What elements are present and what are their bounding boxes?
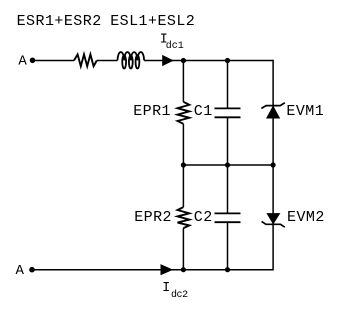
svg-text:C1: C1 bbox=[194, 103, 213, 120]
junction dot mid rail / C branch bbox=[225, 162, 230, 167]
wire: resistor to inductor bbox=[97, 60, 118, 62]
resistor ESR1+ESR2 bbox=[74, 54, 97, 66]
svg-text:A: A bbox=[16, 263, 25, 279]
capacitor C1 bbox=[215, 108, 241, 117]
node A bottom terminal dot bbox=[29, 267, 35, 273]
wire: bottom rail from node A to bottom-right corner bbox=[32, 269, 273, 271]
wire: inductor to top-right corner bbox=[144, 60, 273, 62]
svg-text:dc2: dc2 bbox=[171, 289, 188, 301]
junction dot top rail / EPR1 branch bbox=[181, 58, 186, 63]
wire: EPR1 lower lead to mid rail bbox=[182, 124, 184, 165]
wire: C1 lower lead to mid rail bbox=[227, 117, 229, 165]
svg-text:ESR1+ESR2: ESR1+ESR2 bbox=[17, 13, 102, 30]
junction dot top rail / C1 branch bbox=[225, 58, 230, 63]
wire: C2 branch upper lead bbox=[227, 165, 229, 213]
arrow I_dc2 current direction bbox=[161, 264, 174, 275]
wire: top from node A to resistor bbox=[33, 60, 75, 62]
capacitor C2 bbox=[215, 213, 241, 222]
node A top terminal dot bbox=[30, 58, 36, 64]
inductor ESL1+ESL2 bbox=[118, 52, 145, 68]
label I_dc2 bbox=[162, 281, 188, 301]
zener diode EVM2 bbox=[262, 213, 285, 227]
wire: EPR1 branch upper lead bbox=[182, 61, 184, 102]
svg-text:ESL1+ESL2: ESL1+ESL2 bbox=[110, 13, 195, 30]
svg-text:A: A bbox=[18, 54, 27, 70]
wire: right rail top to bottom bbox=[272, 60, 274, 271]
label I_dc1 bbox=[160, 32, 184, 52]
wire: middle rail bbox=[183, 164, 273, 166]
wire: C2 lower lead to bottom rail bbox=[227, 222, 229, 270]
svg-text:EVM2: EVM2 bbox=[287, 209, 325, 226]
junction dot bottom rail / EPR2 branch bbox=[181, 267, 186, 272]
svg-text:C2: C2 bbox=[194, 209, 213, 226]
wire: EPR2 lower lead to bottom rail bbox=[182, 228, 184, 270]
svg-text:EVM1: EVM1 bbox=[286, 103, 324, 120]
wire: C1 branch upper lead bbox=[227, 61, 229, 109]
junction dot mid rail / EVM branch bbox=[271, 162, 276, 167]
junction dot mid rail / EPR branch bbox=[181, 162, 186, 167]
svg-text:dc1: dc1 bbox=[166, 40, 184, 52]
resistor EPR2 bbox=[178, 207, 190, 228]
resistor EPR1 bbox=[178, 102, 190, 124]
svg-text:I: I bbox=[162, 281, 170, 296]
junction dot bottom rail / C2 branch bbox=[225, 267, 230, 272]
svg-text:EPR1: EPR1 bbox=[133, 103, 171, 120]
zener diode EVM1 bbox=[261, 103, 285, 119]
svg-text:EPR2: EPR2 bbox=[134, 209, 172, 226]
arrow I_dc1 current direction bbox=[162, 55, 174, 66]
wire: EPR2 branch upper lead bbox=[182, 165, 184, 207]
